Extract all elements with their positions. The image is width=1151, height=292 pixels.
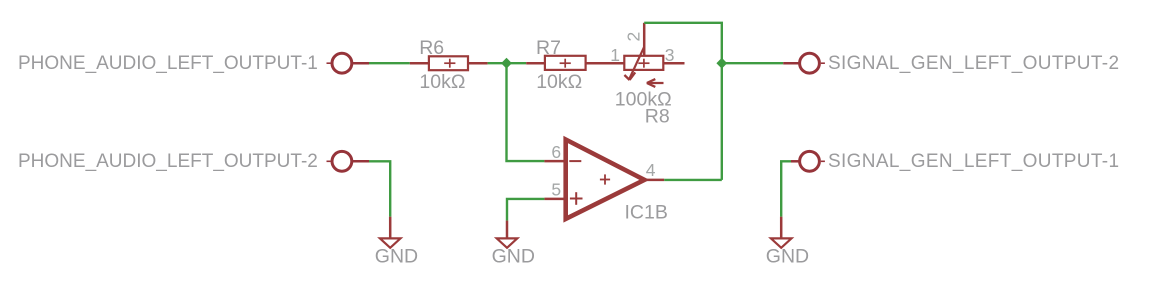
origin cross bbox=[600, 179, 610, 181]
wire junction down to op-amp pin6 bbox=[507, 63, 545, 161]
inverting input minus bbox=[569, 160, 581, 162]
wire R6 to junction bbox=[488, 62, 507, 64]
svg-text:10kΩ: 10kΩ bbox=[536, 71, 582, 93]
svg-text:5: 5 bbox=[551, 180, 561, 200]
svg-text:R6: R6 bbox=[419, 37, 444, 59]
wire pot pin2 to right bus bbox=[644, 23, 722, 180]
non-inverting input plus bbox=[570, 198, 583, 200]
svg-text:PHONE_AUDIO_LEFT_OUTPUT-2: PHONE_AUDIO_LEFT_OUTPUT-2 bbox=[18, 151, 318, 172]
wire junction B to pad SIGNAL_GEN_LEFT_OUTPUT-2 bbox=[722, 62, 783, 64]
ground GND (pin5) bbox=[497, 221, 518, 248]
wire op-amp pin5 to gnd bbox=[507, 199, 544, 221]
potentiometer R8 bbox=[624, 23, 684, 87]
wire pad SIGNAL1 to gnd bbox=[781, 161, 791, 216]
wiper diagonal bbox=[629, 47, 644, 80]
wire pad1 to R6 bbox=[369, 62, 410, 64]
svg-text:GND: GND bbox=[766, 245, 809, 267]
wire op-amp output to bus bbox=[664, 179, 722, 181]
svg-text:R8: R8 bbox=[645, 105, 670, 127]
svg-text:2: 2 bbox=[624, 32, 644, 42]
svg-text:6: 6 bbox=[551, 142, 561, 162]
ground GND (signal1) bbox=[771, 217, 792, 248]
svg-text:10kΩ: 10kΩ bbox=[419, 71, 465, 93]
adjust arrow bbox=[647, 82, 664, 84]
wire junction to R7 bbox=[507, 62, 527, 64]
svg-text:IC1B: IC1B bbox=[625, 202, 668, 224]
pin 6 lead bbox=[544, 160, 565, 163]
svg-text:3: 3 bbox=[665, 45, 675, 65]
wire pad2 to gnd corner bbox=[369, 161, 390, 216]
svg-text:PHONE_AUDIO_LEFT_OUTPUT-1: PHONE_AUDIO_LEFT_OUTPUT-1 bbox=[18, 53, 318, 74]
junction node A bbox=[501, 58, 512, 69]
resistor R7 bbox=[526, 56, 624, 70]
pad SIGNAL_GEN_LEFT_OUTPUT-2 bbox=[783, 53, 825, 73]
pin 3 lead bbox=[663, 62, 684, 65]
svg-text:GND: GND bbox=[375, 245, 418, 267]
svg-text:1: 1 bbox=[610, 45, 620, 65]
pad PHONE_AUDIO_LEFT_OUTPUT-1 bbox=[327, 53, 370, 73]
svg-text:GND: GND bbox=[492, 245, 535, 267]
op-amp IC1B bbox=[544, 140, 664, 219]
svg-text:4: 4 bbox=[646, 160, 656, 180]
pin 4 lead bbox=[644, 179, 664, 182]
resistor R6 bbox=[410, 56, 488, 70]
junction node B bbox=[716, 58, 727, 69]
pad PHONE_AUDIO_LEFT_OUTPUT-2 bbox=[327, 151, 370, 171]
pin 5 lead bbox=[544, 198, 565, 201]
svg-text:R7: R7 bbox=[536, 37, 561, 59]
svg-text:SIGNAL_GEN_LEFT_OUTPUT-1: SIGNAL_GEN_LEFT_OUTPUT-1 bbox=[828, 151, 1119, 172]
ground GND (pad2) bbox=[380, 217, 401, 248]
pad SIGNAL_GEN_LEFT_OUTPUT-1 bbox=[791, 151, 825, 171]
pin 2 lead bbox=[643, 23, 646, 56]
svg-text:SIGNAL_GEN_LEFT_OUTPUT-2: SIGNAL_GEN_LEFT_OUTPUT-2 bbox=[828, 53, 1119, 74]
